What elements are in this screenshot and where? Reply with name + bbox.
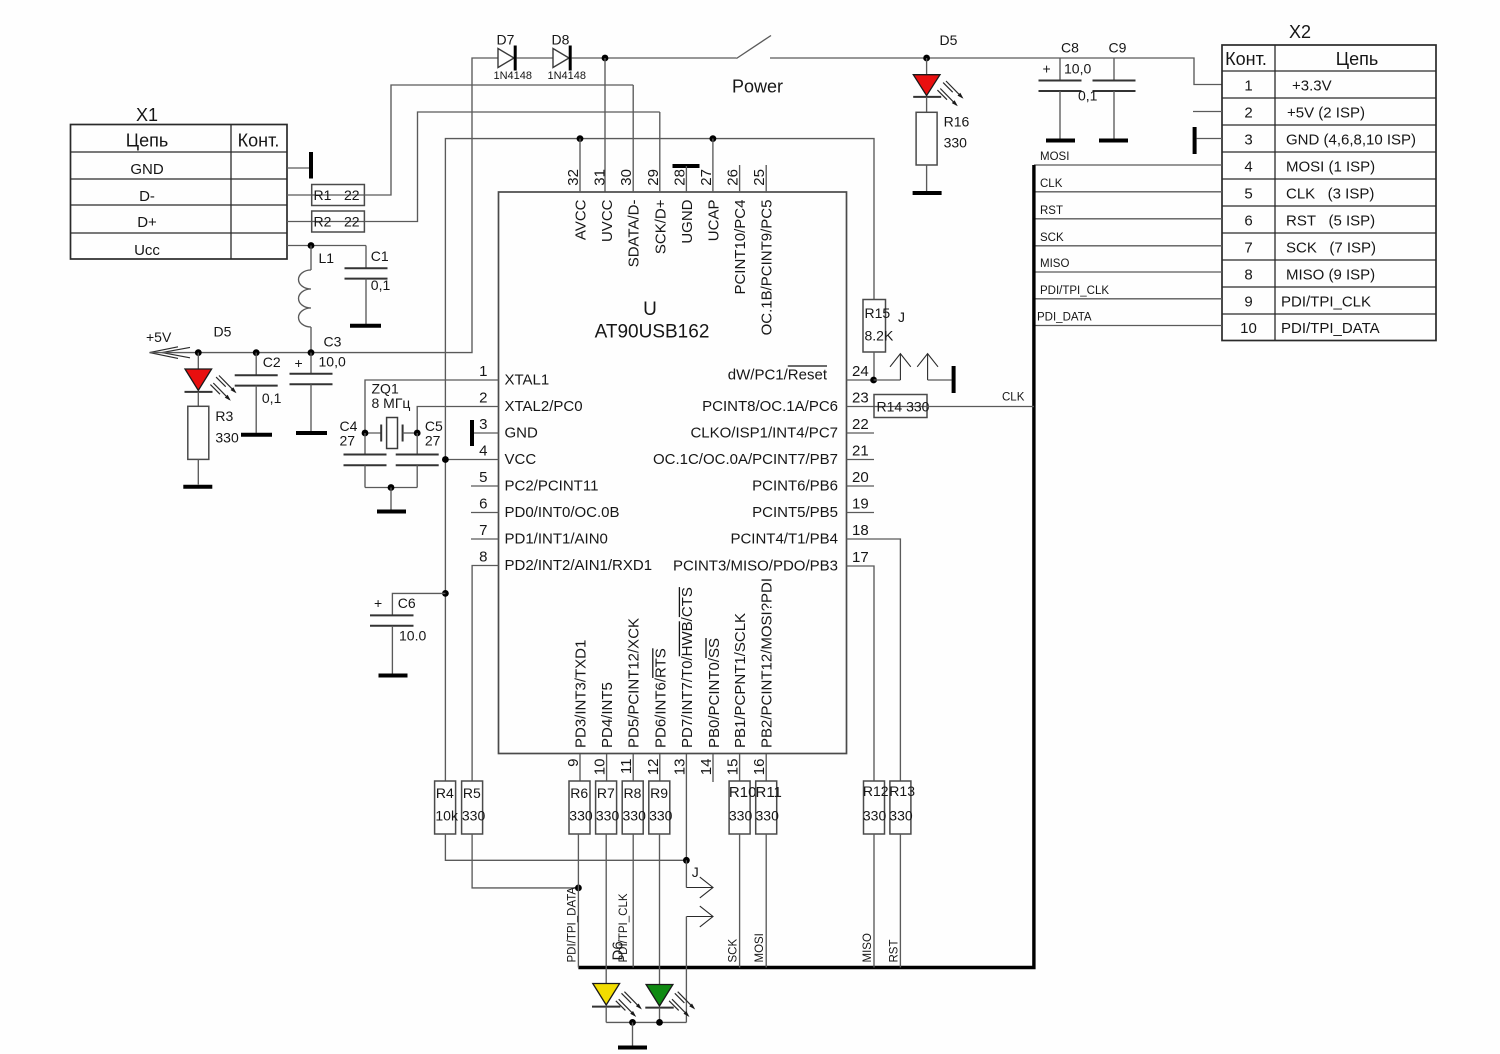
svg-text:22: 22 <box>852 416 869 433</box>
wire R4 to pin13 node <box>445 834 686 860</box>
svg-text:6: 6 <box>479 496 487 513</box>
wire D7 to D8 <box>517 57 554 59</box>
net MISO to X2 <box>1034 258 1222 272</box>
svg-text:Конт.: Конт. <box>1225 49 1267 69</box>
capacitor C9 0,1 <box>1078 40 1136 139</box>
ground at LEDs <box>618 1046 647 1050</box>
svg-text:12: 12 <box>645 759 662 776</box>
svg-text:VCC: VCC <box>505 451 537 468</box>
svg-text:PDI/TPI_DATA: PDI/TPI_DATA <box>1281 320 1380 337</box>
ground at C8 <box>1046 139 1075 143</box>
LED D6 yellow <box>592 984 642 1023</box>
pin 22 CLKO/ISP1/INT4/PC7 stub <box>690 416 874 442</box>
svg-text:PCINT3/MISO/PDO/PB3: PCINT3/MISO/PDO/PB3 <box>673 558 838 575</box>
net CLK to X2 <box>1034 178 1222 192</box>
svg-text:XTAL2/PC0: XTAL2/PC0 <box>505 398 583 415</box>
svg-text:PCINT5/PB5: PCINT5/PB5 <box>752 504 838 521</box>
svg-text:MOSI (1 ISP): MOSI (1 ISP) <box>1286 159 1375 176</box>
svg-text:+5V: +5V <box>146 329 172 345</box>
svg-text:PD2/INT2/AIN1/RXD1: PD2/INT2/AIN1/RXD1 <box>505 557 653 574</box>
svg-text:PC2/PCINT11: PC2/PCINT11 <box>505 478 599 495</box>
svg-text:8 МГц: 8 МГц <box>372 395 411 411</box>
wire +5V rail <box>150 58 499 353</box>
jumper J contacts (bottom) <box>686 860 713 1022</box>
capacitor C5 27 <box>396 418 443 488</box>
svg-text:11: 11 <box>618 759 635 775</box>
svg-text:D-: D- <box>139 188 155 205</box>
node C6 tap <box>442 590 449 597</box>
svg-text:Цепь: Цепь <box>126 131 168 151</box>
svg-text:CLK: CLK <box>1040 178 1063 190</box>
svg-text:GND: GND <box>130 161 164 178</box>
svg-text:MOSI: MOSI <box>754 933 766 962</box>
resistor R2 22 <box>312 211 365 232</box>
svg-text:MOSI: MOSI <box>1040 151 1069 163</box>
svg-text:0,1: 0,1 <box>371 277 391 293</box>
svg-text:PDI_DATA: PDI_DATA <box>1037 312 1092 324</box>
pin 15 PB1/PCPNT1/SCLK <box>725 613 750 781</box>
node UVCC <box>602 55 609 62</box>
svg-text:Цепь: Цепь <box>1336 49 1378 69</box>
svg-text:330: 330 <box>649 808 673 824</box>
node caps common <box>388 484 395 491</box>
svg-text:7: 7 <box>1244 240 1252 257</box>
svg-text:PD4/INT5: PD4/INT5 <box>599 682 616 748</box>
svg-text:31: 31 <box>592 169 609 186</box>
svg-text:25: 25 <box>751 169 768 186</box>
wire R10 to bus (net SCK) <box>728 834 740 968</box>
svg-text:27: 27 <box>425 433 441 449</box>
pin 5 PC2/PCINT11 stub <box>471 469 598 495</box>
pin 14 PB0/PCINT0/SS stub <box>698 638 723 782</box>
svg-text:PD6/INT6/RTS: PD6/INT6/RTS <box>652 648 669 748</box>
svg-text:UGND: UGND <box>679 199 696 243</box>
capacitor C4 27 <box>340 418 387 488</box>
resistor R13 330 <box>889 781 915 834</box>
pin 1 XTAL1 <box>365 363 549 433</box>
pin 18 PCINT4/T1/PB4 to R13 <box>730 522 900 781</box>
wire AVCC/VCC rail <box>445 139 874 781</box>
pin 30 SDATA/D- <box>618 85 643 267</box>
svg-text:330: 330 <box>863 808 887 824</box>
svg-text:UVCC: UVCC <box>599 199 616 242</box>
svg-text:R8: R8 <box>624 785 642 801</box>
svg-text:10,0: 10,0 <box>1064 61 1091 77</box>
svg-text:GND: GND <box>505 425 539 442</box>
svg-text:R9: R9 <box>650 785 668 801</box>
pin 2 XTAL2/PC0 <box>417 390 582 434</box>
svg-text:X2: X2 <box>1289 22 1311 42</box>
resistor R4 10k <box>435 781 459 834</box>
wire R2 to pin29 riser <box>364 112 659 222</box>
svg-text:RST: RST <box>888 940 900 963</box>
svg-text:PD7/INT7/T0/HWB/CTS: PD7/INT7/T0/HWB/CTS <box>679 587 696 748</box>
svg-text:330: 330 <box>623 808 647 824</box>
svg-text:PB0/PCINT0/SS: PB0/PCINT0/SS <box>706 638 723 748</box>
wire X2 +5V stub <box>1193 111 1222 113</box>
wire D8 to UVCC node <box>572 57 737 59</box>
ground at C6 <box>379 674 408 678</box>
svg-text:5: 5 <box>479 469 487 486</box>
pin 3 GND with ground tick <box>472 416 538 446</box>
net MOSI to X2 <box>1034 151 1222 165</box>
svg-text:Power: Power <box>732 77 783 97</box>
pin 17 PCINT3/MISO/PDO/PB3 to R12 <box>673 549 874 781</box>
svg-text:26: 26 <box>725 169 742 186</box>
node D5 anode <box>195 349 202 356</box>
wire R7 to LED D6 (net PDI/TPI_CLK) <box>606 834 630 984</box>
capacitor C3 10,0 <box>290 334 346 432</box>
svg-text:2: 2 <box>1244 105 1252 122</box>
svg-text:MISO: MISO <box>1040 258 1069 270</box>
svg-text:4: 4 <box>479 443 487 460</box>
svg-text:D5: D5 <box>940 32 958 48</box>
svg-text:1N4148: 1N4148 <box>494 70 533 82</box>
svg-text:21: 21 <box>852 443 869 460</box>
svg-text:RST: RST <box>1040 205 1063 217</box>
wire X1 GND row <box>287 167 309 169</box>
svg-text:R1: R1 <box>314 187 332 203</box>
node pin27 tap <box>710 135 717 142</box>
wire X2 GND row <box>1197 138 1222 140</box>
node C2 top <box>253 349 260 356</box>
svg-text:SCK (7 ISP): SCK (7 ISP) <box>1286 240 1376 257</box>
wire R12 to bus (net MISO) <box>862 834 874 968</box>
net SCK to X2 <box>1034 232 1222 246</box>
svg-text:24: 24 <box>852 363 869 380</box>
wire R13 to bus (net RST) <box>888 834 900 968</box>
svg-text:13: 13 <box>671 759 688 776</box>
svg-text:+5V (2 ISP): +5V (2 ISP) <box>1287 105 1365 122</box>
svg-text:AT90USB162: AT90USB162 <box>595 322 710 343</box>
capacitor C6 10.0 <box>370 593 445 673</box>
ISP bus thick line <box>578 165 1034 968</box>
pin 13 PD7/INT7/T0/HWB/CTS <box>671 587 696 860</box>
diode D7 1N4148 <box>494 32 533 83</box>
net RST to X2 <box>1034 205 1222 219</box>
svg-text:23: 23 <box>852 390 869 407</box>
svg-text:3: 3 <box>479 416 487 433</box>
svg-text:PCINT10/PC4: PCINT10/PC4 <box>732 200 749 295</box>
ground at crystal caps <box>377 510 406 514</box>
node D5 top anode <box>923 55 930 62</box>
wire R11 to bus (net MOSI) <box>754 834 766 968</box>
capacitor C2 0,1 <box>235 353 282 433</box>
svg-text:D7: D7 <box>497 32 515 48</box>
pin 4 VCC <box>442 443 536 469</box>
svg-text:SCK: SCK <box>728 939 740 963</box>
svg-text:C3: C3 <box>324 334 342 350</box>
pin 29 SCK/D+ <box>645 112 670 254</box>
svg-text:30: 30 <box>618 169 635 186</box>
svg-text:CLKO/ISP1/INT4/PC7: CLKO/ISP1/INT4/PC7 <box>690 425 838 442</box>
svg-text:+: + <box>1043 61 1051 77</box>
svg-text:+3.3V: +3.3V <box>1292 78 1332 95</box>
svg-text:20: 20 <box>852 469 869 486</box>
svg-text:28: 28 <box>671 169 688 186</box>
svg-text:22: 22 <box>344 214 360 230</box>
ground at R16 <box>913 191 942 195</box>
svg-text:7: 7 <box>479 522 487 539</box>
resistor R7 330 <box>596 781 620 834</box>
svg-text:+: + <box>374 595 382 611</box>
svg-text:32: 32 <box>565 169 582 186</box>
net PDI/TPI_CLK to X2 <box>1034 285 1222 299</box>
switch Power blade <box>736 36 771 59</box>
svg-text:R14 330: R14 330 <box>877 399 930 415</box>
pin 28 UGND with ground tick <box>671 166 699 244</box>
svg-text:R12: R12 <box>863 783 889 799</box>
svg-text:XTAL1: XTAL1 <box>505 372 550 389</box>
wire R5 to PDI_DATA line <box>472 834 578 888</box>
wire R6 to bus (net PDI/TPI_DATA) <box>566 834 578 968</box>
svg-text:U: U <box>643 299 657 320</box>
svg-text:330: 330 <box>569 808 593 824</box>
node XTAL1/C4 <box>362 430 369 437</box>
svg-text:9: 9 <box>565 759 582 767</box>
svg-text:AVCC: AVCC <box>573 199 590 240</box>
svg-text:MISO (9 ISP): MISO (9 ISP) <box>1286 267 1375 284</box>
svg-text:R2: R2 <box>314 214 332 230</box>
svg-text:R4: R4 <box>436 785 454 801</box>
svg-text:R5: R5 <box>463 785 481 801</box>
svg-text:J: J <box>898 309 905 325</box>
svg-text:1N4148: 1N4148 <box>548 70 587 82</box>
LED D5 red (top) <box>913 32 963 106</box>
pin 7 PD1/INT1/AIN0 stub <box>471 522 608 548</box>
IC U AT90USB162 <box>499 192 847 754</box>
svg-text:22: 22 <box>344 187 360 203</box>
svg-text:R6: R6 <box>570 785 588 801</box>
wire switch to X2 +3.3V <box>770 58 1222 85</box>
svg-text:16: 16 <box>751 759 768 776</box>
svg-text:8.2K: 8.2K <box>865 328 894 344</box>
svg-text:C2: C2 <box>263 354 281 370</box>
svg-text:29: 29 <box>645 169 662 186</box>
svg-text:PD5/PCINT12/XCK: PD5/PCINT12/XCK <box>626 618 643 748</box>
svg-text:27: 27 <box>340 433 356 449</box>
svg-text:D8: D8 <box>552 32 570 48</box>
pin 21 OC.1C/OC.0A/PCINT7/PB7 stub <box>653 443 874 469</box>
ground tick at X1 GND <box>309 152 313 179</box>
resistor R16 330 <box>916 97 969 191</box>
svg-text:330: 330 <box>596 808 620 824</box>
svg-text:10: 10 <box>592 759 609 776</box>
svg-text:C9: C9 <box>1109 40 1127 56</box>
connector X1 table <box>71 105 288 259</box>
pin 19 PCINT5/PB5 stub <box>752 496 874 522</box>
svg-text:PDI/TPI_DATA: PDI/TPI_DATA <box>566 887 578 963</box>
svg-text:SCK: SCK <box>1040 232 1064 244</box>
wire LED cathodes common <box>606 1021 686 1023</box>
jumper J contacts (top) <box>874 354 952 380</box>
pin 16 PB2/PCINT12/MOSI?PDI <box>751 578 776 781</box>
svg-text:330: 330 <box>756 808 780 824</box>
svg-text:PD3/INT3/TXD1: PD3/INT3/TXD1 <box>573 640 590 748</box>
resistor R14 330 <box>874 395 930 418</box>
svg-text:R15: R15 <box>865 305 891 321</box>
pin 25 OC.1B/PCINT9/PC5 stub <box>751 165 776 335</box>
wire R1 to pin30 riser <box>364 85 633 195</box>
svg-text:+: + <box>295 355 303 371</box>
ground at C1 <box>350 324 381 328</box>
ground at C9 <box>1099 139 1128 143</box>
svg-text:R16: R16 <box>944 114 970 130</box>
svg-text:8: 8 <box>1244 267 1252 284</box>
svg-text:X1: X1 <box>136 105 158 125</box>
svg-text:D6: D6 <box>610 941 627 960</box>
svg-text:4: 4 <box>1244 159 1252 176</box>
tick bar at jumper right <box>952 366 956 393</box>
net CLK wire from R14 to bus <box>927 392 1034 407</box>
svg-text:Ucc: Ucc <box>134 242 160 259</box>
resistor R15 8.2K <box>863 300 894 381</box>
svg-text:0,1: 0,1 <box>262 390 282 406</box>
ground at C3 <box>296 431 327 435</box>
svg-text:C8: C8 <box>1061 40 1079 56</box>
wire crystal caps common <box>365 487 417 489</box>
svg-text:10.0: 10.0 <box>399 627 426 643</box>
svg-text:CLK: CLK <box>1002 392 1025 404</box>
svg-text:RST (5 ISP): RST (5 ISP) <box>1286 213 1375 230</box>
svg-text:9: 9 <box>1244 294 1252 311</box>
node R5/R6 join <box>575 885 582 892</box>
svg-text:OC.1C/OC.0A/PCINT7/PB7: OC.1C/OC.0A/PCINT7/PB7 <box>653 451 838 468</box>
LED D5 red (left) <box>185 324 237 401</box>
pin 23 PCINT8/OC.1A/PC6 <box>702 390 874 416</box>
capacitor C8 10,0 <box>1039 40 1092 139</box>
svg-text:PCINT6/PB6: PCINT6/PB6 <box>752 478 838 495</box>
ground tick at X2 GND <box>1193 127 1197 154</box>
pin 24 dW/PC1/Reset <box>728 363 874 384</box>
node green cathode <box>656 1019 663 1026</box>
diode D8 1N4148 <box>548 32 587 83</box>
svg-text:15: 15 <box>725 759 742 776</box>
svg-text:10,0: 10,0 <box>319 354 346 370</box>
svg-text:R10: R10 <box>729 784 757 801</box>
svg-text:C1: C1 <box>371 248 389 264</box>
svg-text:5: 5 <box>1244 186 1252 203</box>
svg-text:330: 330 <box>944 135 968 151</box>
crystal ZQ1 8 MHz <box>365 381 417 449</box>
svg-text:MISO: MISO <box>862 933 874 962</box>
svg-text:J: J <box>692 864 699 880</box>
svg-text:C6: C6 <box>398 595 416 611</box>
ground at C2 <box>241 433 272 437</box>
wire common stem <box>390 488 392 510</box>
svg-text:27: 27 <box>698 169 715 186</box>
pin 12 PD6/INT6/RTS <box>645 648 670 781</box>
svg-text:UCAP: UCAP <box>705 200 722 242</box>
svg-text:GND (4,6,8,10 ISP): GND (4,6,8,10 ISP) <box>1286 132 1416 149</box>
node Ucc junction <box>308 242 315 249</box>
svg-text:R13: R13 <box>889 783 915 799</box>
+5V net arrow <box>146 329 190 358</box>
pin 6 PD0/INT0/OC.0B stub <box>471 496 620 522</box>
svg-text:PD0/INT0/OC.0B: PD0/INT0/OC.0B <box>505 504 620 521</box>
wire X1 D+ to R2 <box>287 221 312 223</box>
svg-text:PDI/TPI_CLK: PDI/TPI_CLK <box>1040 285 1109 297</box>
svg-text:6: 6 <box>1244 213 1252 230</box>
svg-text:330: 330 <box>215 430 239 446</box>
svg-text:D5: D5 <box>214 324 232 340</box>
svg-text:PB2/PCINT12/MOSI?PDI: PB2/PCINT12/MOSI?PDI <box>759 578 776 748</box>
resistor R11 330 <box>756 781 782 834</box>
svg-text:PCINT8/OC.1A/PC6: PCINT8/OC.1A/PC6 <box>702 398 838 415</box>
pin 11 PD5/PCINT12/XCK <box>618 618 643 781</box>
svg-text:0,1: 0,1 <box>1078 88 1098 104</box>
svg-text:PB1/PCPNT1/SCLK: PB1/PCPNT1/SCLK <box>732 613 749 748</box>
resistor R3 330 <box>188 392 239 485</box>
svg-text:SCK/D+: SCK/D+ <box>652 199 669 254</box>
svg-text:D+: D+ <box>137 214 157 231</box>
node pin13/R4 <box>683 857 690 864</box>
svg-text:330: 330 <box>462 808 486 824</box>
svg-text:R7: R7 <box>597 785 615 801</box>
node pin32 tap <box>577 135 584 142</box>
svg-text:CLK (3 ISP): CLK (3 ISP) <box>1286 186 1374 203</box>
wire X1 D- to R1 <box>287 194 312 196</box>
svg-text:L1: L1 <box>319 250 335 266</box>
resistor R5 330 <box>462 781 486 834</box>
svg-text:330: 330 <box>729 808 753 824</box>
pin 10 PD4/INT5 <box>592 682 617 781</box>
svg-text:10: 10 <box>1240 320 1257 337</box>
svg-text:Конт.: Конт. <box>238 131 280 151</box>
wire to ground <box>632 1022 634 1045</box>
svg-text:R3: R3 <box>215 408 233 424</box>
svg-text:SDATA/D-: SDATA/D- <box>626 199 643 267</box>
svg-text:2: 2 <box>479 390 487 407</box>
svg-text:14: 14 <box>698 759 715 776</box>
node XTAL2/C5 <box>414 430 421 437</box>
svg-text:17: 17 <box>852 549 869 566</box>
wire UVCC node down to pin31 <box>604 58 606 192</box>
resistor R8 330 <box>622 781 646 834</box>
resistor R12 330 <box>863 781 889 834</box>
svg-text:PDI/TPI_CLK: PDI/TPI_CLK <box>1281 294 1371 311</box>
node C3 top <box>308 349 315 356</box>
wire R8 to bus <box>632 834 634 968</box>
inductor L1 <box>299 246 335 353</box>
capacitor C1 0,1 <box>345 246 391 325</box>
LED green <box>645 985 695 1023</box>
resistor R9 330 <box>649 781 673 834</box>
svg-text:1: 1 <box>479 363 487 380</box>
svg-text:8: 8 <box>479 549 487 566</box>
pin 20 PCINT6/PB6 stub <box>752 469 874 495</box>
pin 9 PD3/INT3/TXD1 <box>565 640 590 781</box>
svg-text:dW/PC1/Reset: dW/PC1/Reset <box>728 367 828 384</box>
wire X1 Ucc row <box>287 245 366 247</box>
resistor R6 330 <box>569 781 593 834</box>
pin 26 PCINT10/PC4 stub <box>725 165 750 295</box>
ground at R3 <box>183 485 212 489</box>
svg-text:330: 330 <box>889 808 913 824</box>
svg-text:PCINT4/T1/PB4: PCINT4/T1/PB4 <box>730 531 838 548</box>
pin 31 UVCC <box>592 169 617 242</box>
net PDI_DATA to X2 <box>1034 312 1222 326</box>
svg-text:1: 1 <box>1244 78 1252 95</box>
connector X2 table <box>1222 22 1436 341</box>
svg-text:19: 19 <box>852 496 869 513</box>
resistor R10 330 <box>729 781 757 834</box>
node pin24/R15 <box>870 377 877 384</box>
pin 27 UCAP <box>698 139 723 242</box>
svg-text:3: 3 <box>1244 132 1252 149</box>
svg-text:OC.1B/PCINT9/PC5: OC.1B/PCINT9/PC5 <box>759 200 776 336</box>
svg-text:18: 18 <box>852 522 869 539</box>
